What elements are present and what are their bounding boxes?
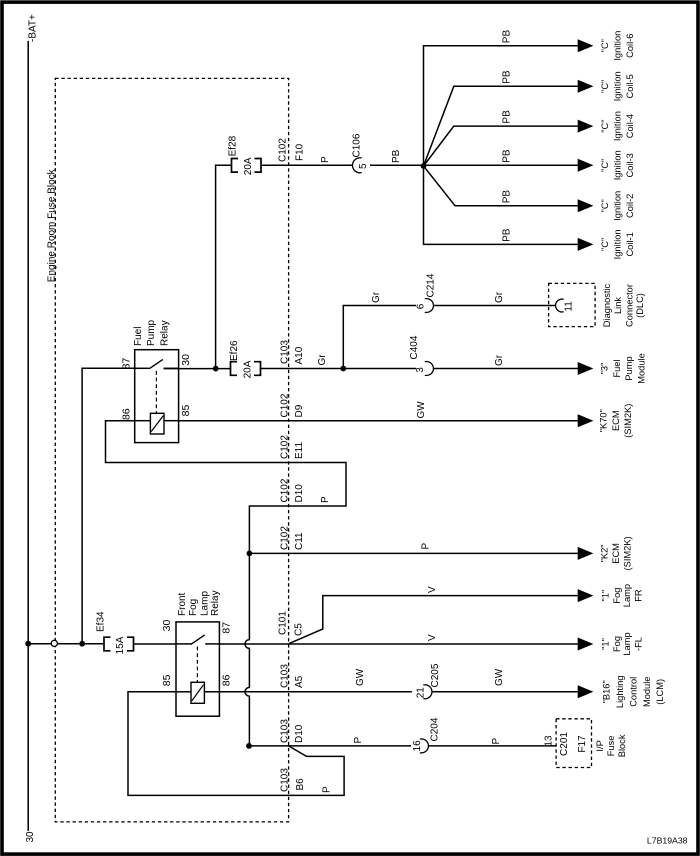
svg-text:C204: C204 [430,717,441,741]
svg-text:C106: C106 [352,133,363,157]
svg-text:11: 11 [564,301,575,312]
wire: C404 to fuel pump module [434,368,579,370]
label Fuel Pump Module pin 3 [600,353,647,384]
svg-text:Lamp: Lamp [622,632,632,655]
label wire colour P (B6 row) [322,786,333,793]
arrow to Fog Lamp -FL [578,638,594,651]
label C205 [430,663,441,687]
label terminal 30 [25,831,36,843]
label wire colour PB (coil 1 row) [502,228,513,242]
svg-text:Coil-5: Coil-5 [625,74,635,98]
wire: C205 to LCM [432,691,578,693]
svg-text:Ignition: Ignition [612,191,622,221]
label wire colour PB (feed) [391,149,402,163]
relay: Fuel Pump Relay [135,350,179,443]
svg-text:(DLC): (DLC) [635,293,645,318]
svg-text:"C": "C" [600,119,610,132]
label Ef28 [228,135,239,156]
svg-text:Fuel: Fuel [612,359,622,377]
svg-text:C103: C103 [279,664,290,688]
svg-text:(LCM): (LCM) [655,679,665,705]
wire: splice to ignition coil 5 [424,86,579,166]
svg-text:PB: PB [502,110,513,124]
wire: fuel relay pin 85 to ECM K70 [179,420,578,422]
label wire colour V (FR row) [427,586,438,593]
label wire colour PB (coil 2 row) [502,190,513,204]
label wire colour P (C11 row) [421,543,432,550]
arrow to Ignition Coil-4 [578,120,594,133]
svg-text:B6: B6 [295,778,306,791]
svg-text:GW: GW [494,668,505,686]
wire: branch up to C214 row [343,306,416,369]
svg-text:C101: C101 [278,611,289,635]
svg-text:Coil-2: Coil-2 [625,194,635,218]
pin number 21 of C205 [415,687,426,699]
svg-text:C102: C102 [279,478,290,502]
svg-text:C205: C205 [430,663,441,687]
value 20A (Ef28) [243,157,254,175]
junction node C11 row [247,551,253,557]
svg-text:21: 21 [415,687,426,699]
label wire colour Gr (to DLC) [494,291,505,303]
inline connector C205 pin 21 [423,685,432,699]
label Ef26 [229,340,240,361]
wire: fog relay pin 87 to front fog lamp -FL [219,643,578,645]
wire: splice to ignition coil 6 [424,46,579,166]
svg-text:5: 5 [358,163,369,169]
label I/P Fuse Block [595,734,627,757]
svg-text:"C": "C" [600,39,610,52]
svg-text:D10: D10 [294,724,305,743]
wire: C106 to ignition coil splice [370,164,424,166]
fuse Ef26 20A [231,362,261,376]
label Fog Lamp FR [601,584,644,607]
arrow to Fog Lamp FR [578,589,594,602]
wire: splice to ignition coil 4 [424,126,579,166]
label wire colour PB (coil 6 row) [502,30,513,44]
svg-text:Lighting: Lighting [615,676,625,709]
svg-text:Fog: Fog [612,636,622,652]
label wire colour GW (K70 row) [416,401,427,419]
inline connector C214 pin 6 [425,298,434,312]
value 15A [115,636,126,654]
svg-text:D9: D9 [294,404,305,417]
svg-text:P: P [353,737,364,744]
svg-text:Control: Control [628,677,638,707]
svg-text:Gr: Gr [317,354,328,366]
Diagnostic Link Connector DLC (dashed box) [549,283,596,326]
label wire colour P (Ef28 row) [320,156,331,163]
connector C103 pin A10 labels [279,340,305,365]
pin number 16 of C204 [412,740,423,752]
pin number 6 of C214 [416,303,427,309]
svg-text:20A: 20A [243,157,254,175]
svg-text:86: 86 [220,674,232,686]
svg-text:Relay: Relay [160,320,171,346]
label Fuel Pump Relay [133,319,171,346]
svg-text:A10: A10 [294,346,305,364]
svg-text:D10: D10 [294,484,305,503]
label wire colour P (C103 D10 row) [353,737,364,744]
label Engine Room Fuse Block [47,168,58,282]
label wire colour GW (to LCM) [494,668,505,686]
svg-text:"C": "C" [600,199,610,212]
pin 85 fuel relay [180,405,192,417]
label Ignition Coil-5 [600,71,635,101]
svg-text:Diagnostic: Diagnostic [602,283,612,327]
pin 86 fog relay [220,674,232,686]
svg-text:C103: C103 [279,768,290,792]
svg-text:Ef34: Ef34 [96,611,107,632]
svg-text:"1": "1" [601,638,611,650]
label wire colour PB (coil 4 row) [502,110,513,124]
label fuse F17 [577,735,588,753]
svg-text:C214: C214 [426,273,437,297]
svg-text:20A: 20A [243,360,254,378]
svg-text:Ignition: Ignition [612,150,622,180]
svg-text:E11: E11 [294,442,305,459]
wire: C204 to I/P fuse block [429,745,557,747]
fuse Ef34 15A [104,637,134,651]
svg-text:PB: PB [502,190,513,204]
wire: branch C103 B6 loop to fog relay pin 85 [128,692,344,796]
svg-text:C404: C404 [409,335,420,359]
svg-text:V: V [427,634,438,641]
arrow to ECM K2 [578,547,594,560]
pin number 11 of DLC [564,301,575,312]
label Ignition Coil-6 [600,31,635,61]
splice node to ignition coils [421,163,427,169]
svg-text:87: 87 [220,622,232,634]
svg-text:3: 3 [415,367,426,373]
inline connector C404 pin 3 [425,362,434,376]
wire: C103 D10 to C204 [249,745,411,747]
svg-text:Ef26: Ef26 [229,340,240,361]
svg-text:Ignition: Ignition [612,31,622,61]
label wire colour PB (coil 5 row) [502,70,513,84]
svg-text:Connector: Connector [624,284,634,327]
drawing number L7B19A38 [647,836,688,846]
svg-text:Ignition: Ignition [612,71,622,101]
power rail BAT+ (terminal 30) [27,41,29,831]
relay: Front Fog Lamp Relay [176,622,219,716]
wire: branch to front fog lamp FR [289,596,578,644]
connector C103 pin D10 labels [279,719,305,743]
label Ignition Coil-4 [600,111,635,141]
svg-text:Gr: Gr [494,291,505,303]
connector C103 pin A5 labels [279,664,305,688]
svg-text:Fuel: Fuel [133,327,144,346]
wire: fuse Ef34 to fog relay pin 30 [134,643,177,645]
arrow to Ignition Coil-3 [578,159,594,172]
label Lighting Control Module (LCM) pin B16 [602,676,666,709]
svg-text:I/P: I/P [595,740,605,751]
connector C103 pin B6 labels [279,768,306,792]
wire: fuse Ef26 through C103 A10 to C404 [261,368,417,370]
svg-text:16: 16 [412,740,423,752]
svg-text:F10: F10 [295,143,306,161]
connector C102 pin C11 labels [279,526,305,550]
svg-text:Ignition: Ignition [612,111,622,141]
svg-text:C5: C5 [294,623,305,636]
svg-text:Coil-3: Coil-3 [625,153,635,177]
I/P Fuse Block (dashed box) [556,719,591,768]
svg-text:Pump: Pump [624,356,634,380]
junction on BAT+ rail [25,641,31,647]
pin 30 fog relay [161,620,173,632]
svg-text:PB: PB [502,70,513,84]
svg-text:PB: PB [502,30,513,44]
wire: fog relay pin 86 through C103 A5 to C205 [219,691,412,693]
arrow to Ignition Coil-1 [578,238,594,251]
label C106 [352,133,363,157]
label wire colour V (FL row) [427,634,438,641]
pin 85 fog relay [161,674,173,686]
svg-text:Pump: Pump [146,319,157,346]
svg-text:GW: GW [355,668,366,686]
connector arc pin 11 inside DLC [556,299,564,312]
label ECM K2 (SIM2K) [600,536,633,570]
svg-text:C11: C11 [294,532,305,550]
svg-text:30: 30 [161,620,173,632]
svg-text:"C": "C" [600,80,610,93]
svg-text:30: 30 [25,831,36,843]
svg-text:PB: PB [502,149,513,163]
svg-text:"C": "C" [600,159,610,172]
svg-text:86: 86 [121,408,133,420]
svg-text:Gr: Gr [494,354,505,366]
svg-text:C102: C102 [279,393,290,417]
label wire colour GW (A5 row) [355,668,366,686]
svg-text:"K70": "K70" [599,409,609,432]
svg-text:Module: Module [636,353,646,384]
connector C102 pin D9 labels [279,393,305,417]
svg-text:6: 6 [416,303,427,309]
svg-text:L7B19A38: L7B19A38 [647,836,688,846]
svg-text:A5: A5 [294,675,305,688]
label wire colour Gr (C214 row) [371,291,382,303]
svg-text:85: 85 [161,674,173,686]
pin 87 fuel relay [121,358,133,370]
pin 86 fuel relay [121,408,133,420]
svg-text:PB: PB [502,228,513,242]
svg-text:Coil-4: Coil-4 [625,114,635,138]
svg-text:Coil-1: Coil-1 [625,232,635,256]
wire: branch up to fuel pump relay pin 87 [82,368,135,643]
label Ignition Coil-3 [600,150,635,180]
svg-text:"C": "C" [600,238,610,251]
svg-text:Fog: Fog [188,599,199,616]
svg-text:Link: Link [613,297,623,314]
connector C102 pin E11 labels [279,435,305,459]
svg-text:"B16": "B16" [602,680,612,703]
svg-text:C201: C201 [559,732,570,756]
svg-text:Block: Block [617,734,627,757]
junction node at fuse Ef26 feed [213,366,219,372]
junction node C103 D10 row [246,743,252,749]
svg-text:F17: F17 [577,735,588,753]
wire: fuel relay pin 30 to fuse Ef26 [164,368,231,370]
svg-text:PB: PB [391,149,402,163]
wire: fuel relay pin 86 loop through C102 E11 and C102 D10 [106,421,347,554]
pin number 3 of C404 [415,367,426,373]
splice node to DLC branch [340,366,346,372]
svg-text:(SIM2K): (SIM2K) [623,404,633,438]
svg-text:ECM: ECM [611,543,621,564]
connector C101 pin C5 labels [278,611,305,636]
svg-text:Gr: Gr [371,291,382,303]
svg-text:"1": "1" [601,590,611,602]
svg-text:-BAT+: -BAT+ [28,14,39,42]
svg-text:P: P [322,786,333,793]
wire: splice to ignition coil 3 [424,164,579,166]
arrow to ECM K70 [578,414,594,427]
label C404 [409,335,420,359]
arrow to Ignition Coil-2 [578,199,594,212]
arrow to Ignition Coil-6 [578,39,594,52]
arrow to Ignition Coil-5 [578,80,594,93]
svg-text:P: P [421,543,432,550]
label wire colour PB (coil 3 row) [502,149,513,163]
connector C102 pin F10 labels [278,138,306,162]
svg-text:13: 13 [544,735,555,747]
svg-text:15A: 15A [115,636,126,654]
label Ignition Coil-2 [600,191,635,221]
svg-text:P: P [320,496,331,503]
label Front Fog Lamp Relay [177,590,221,616]
label wire colour P (to I/P fuse block) [491,738,502,745]
pin number 13 at C201 [544,735,555,747]
wire: splice to ignition coil 2 [424,166,579,206]
fuse Ef28 20A [232,159,262,173]
connector circle at fuse block wall [51,640,57,646]
label Diagnostic Link Connector (DLC) [602,283,645,327]
junction node feed split [79,641,85,647]
arrow to Fuel Pump Module [578,362,594,375]
svg-text:Coil-6: Coil-6 [625,34,635,58]
inline connector C106 pin 5 [352,158,361,173]
wire: to ECM K2 [249,552,578,554]
label Fog Lamp -FL [601,632,644,655]
label Ef34 [96,611,107,632]
wire: BAT+ rail to fuse Ef34 [28,643,104,645]
svg-text:(SIM2K): (SIM2K) [623,536,633,570]
svg-text:Ignition: Ignition [612,229,622,259]
svg-text:Lamp: Lamp [622,584,632,607]
label C201 [559,732,570,756]
svg-text:Ef28: Ef28 [228,135,239,156]
svg-text:87: 87 [121,358,133,370]
arrow to Lighting Control Module [578,685,594,698]
wire: C214 to DLC [434,305,557,307]
svg-text:Fog: Fog [612,588,622,604]
label C214 [426,273,437,297]
svg-text:Front: Front [177,592,188,616]
label Ignition Coil-1 [600,229,635,259]
svg-text:P: P [491,738,502,745]
label wire colour Gr (to fuel pump module) [494,354,505,366]
label wire colour P (D10 row) [320,496,331,503]
svg-text:C102: C102 [279,526,290,550]
svg-text:P: P [320,156,331,163]
label BAT+ [28,14,39,42]
svg-text:Module: Module [642,677,652,708]
wire: fuse Ef28 through C102 F10 [261,164,353,166]
pin 87 fog relay [220,622,232,634]
svg-text:ECM: ECM [611,410,621,431]
label wire colour Gr (Ef26 row) [317,354,328,366]
label ECM K70 (SIM2K) [599,404,633,438]
wire: splice to ignition coil 1 [424,166,579,244]
value 20A (Ef26) [243,360,254,378]
wire: vertical feed to fuse Ef28 [216,165,232,368]
Engine Room Fuse Block (dashed outline) [55,78,288,822]
svg-text:C102: C102 [279,435,290,459]
svg-text:GW: GW [416,401,427,419]
svg-text:FR: FR [633,589,643,602]
label C204 [430,717,441,741]
svg-text:Lamp: Lamp [200,591,211,616]
pin number 5 of C106 [358,163,369,169]
svg-text:"3": "3" [600,363,610,375]
svg-text:-FL: -FL [633,637,643,651]
connector C102 pin D10 labels [279,478,305,502]
svg-text:C102: C102 [278,138,289,162]
svg-text:Engine Room Fuse Block: Engine Room Fuse Block [47,168,58,282]
svg-text:30: 30 [180,354,192,366]
svg-text:85: 85 [180,405,192,417]
svg-text:"K2": "K2" [600,544,610,562]
svg-text:C103: C103 [279,340,290,364]
wire: vertical from C11 node down to C103 D10 node (with hops) [245,553,249,746]
svg-text:Fuse: Fuse [606,736,616,757]
pin 30 fuel relay [180,354,192,366]
svg-text:V: V [427,586,438,593]
svg-text:C103: C103 [279,719,290,743]
inline connector C204 pin 16 [420,739,429,753]
svg-text:Relay: Relay [210,590,221,616]
